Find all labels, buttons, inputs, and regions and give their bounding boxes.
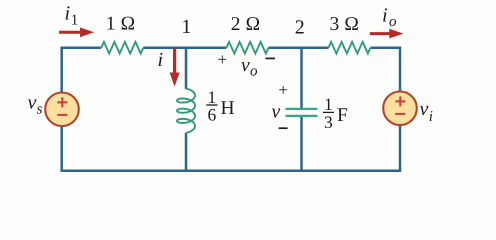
wire top [62, 46, 400, 49]
capacitor 1/3 F plates [286, 109, 318, 116]
voltage source vs [45, 93, 79, 127]
label vi [420, 98, 433, 125]
label io [382, 4, 397, 30]
svg-text:i: i [382, 4, 388, 26]
voltage source vi [383, 92, 417, 126]
svg-text:+: + [278, 80, 288, 99]
svg-text:i: i [429, 109, 433, 125]
svg-text:1 Ω: 1 Ω [106, 13, 136, 34]
current arrow i (down) [170, 48, 180, 87]
wire left [60, 47, 63, 173]
svg-text:2: 2 [295, 17, 305, 39]
current arrow io [370, 29, 404, 39]
svg-text:3: 3 [324, 112, 333, 132]
label vo [241, 55, 258, 80]
svg-text:i: i [65, 3, 71, 25]
svg-text:1: 1 [181, 16, 191, 38]
inductor 1/6 H coil [177, 89, 195, 133]
wire node1 branch [185, 48, 188, 171]
svg-text:s: s [37, 102, 43, 118]
svg-text:v: v [420, 98, 429, 120]
svg-text:i: i [158, 49, 164, 71]
svg-text:o: o [250, 64, 258, 80]
resistor 1 ohm [101, 42, 143, 54]
svg-text:F: F [337, 105, 348, 126]
svg-text:2 Ω: 2 Ω [231, 14, 261, 35]
svg-text:1: 1 [71, 13, 79, 29]
label vs [28, 92, 43, 118]
svg-text:3 Ω: 3 Ω [329, 14, 359, 35]
resistor 3 ohm [329, 42, 371, 54]
svg-text:v: v [241, 55, 250, 76]
resistor 2 ohm [227, 42, 269, 54]
label i1 [65, 3, 79, 29]
svg-text:+: + [218, 50, 228, 69]
capacitor minus label [279, 127, 288, 129]
wire node2 branch [300, 48, 303, 171]
label 1/6 H [206, 87, 234, 125]
wire right [399, 47, 402, 173]
label 1/3 F [323, 94, 348, 132]
svg-text:o: o [389, 14, 397, 30]
svg-text:v: v [272, 101, 281, 122]
svg-text:6: 6 [208, 105, 217, 125]
current arrow i1 [59, 28, 94, 38]
svg-text:v: v [28, 92, 37, 114]
resistor 2 ohm minus label [266, 57, 276, 59]
wire bottom [62, 170, 400, 173]
svg-text:H: H [221, 98, 235, 119]
